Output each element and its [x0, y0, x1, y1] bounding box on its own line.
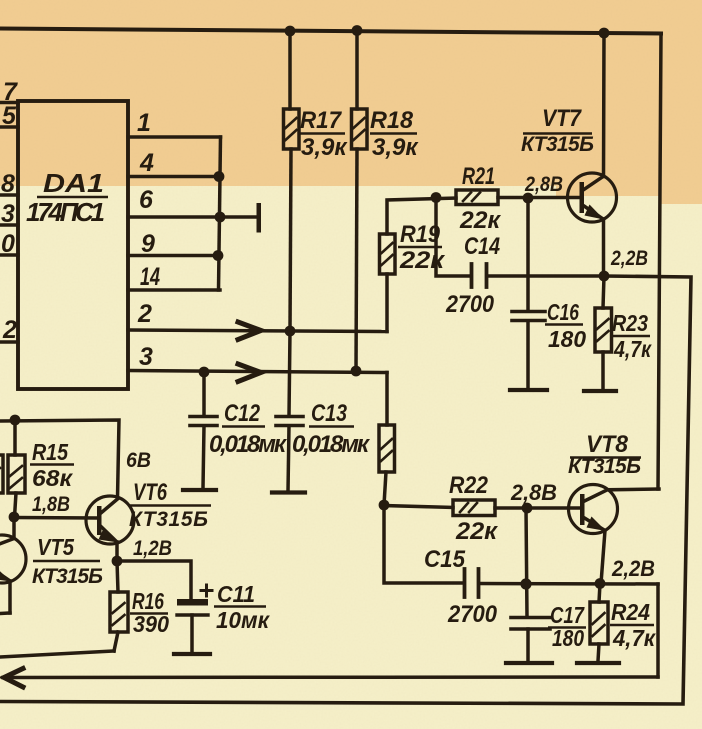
- svg-text:174ПС1: 174ПС1: [26, 197, 105, 227]
- capacitor C17: [526, 508, 527, 617]
- arrow pin 2 row: [238, 322, 261, 340]
- ground C17: [506, 661, 552, 665]
- label R17: [300, 107, 348, 161]
- wire DA1 pin 2 output row: [128, 330, 387, 332]
- svg-text:R17: R17: [300, 107, 343, 134]
- wire R16 bottom to left: [0, 651, 114, 657]
- svg-text:КТ315Б: КТ315Б: [568, 455, 641, 478]
- label C17: [548, 602, 586, 651]
- svg-text:3: 3: [139, 343, 153, 371]
- IC DA1 label: [26, 168, 108, 227]
- svg-text:22к: 22к: [459, 207, 502, 234]
- label R15: [30, 439, 74, 491]
- junction top rail R18: [352, 25, 363, 36]
- svg-text:0: 0: [1, 230, 15, 258]
- label R22: [449, 472, 499, 545]
- wire 1,2В row: [117, 561, 191, 599]
- junction pin3 row C12: [199, 367, 210, 378]
- svg-text:2,8В: 2,8В: [524, 173, 563, 196]
- wire supply rail to VT8 collector vertical: [658, 34, 661, 490]
- svg-text:C13: C13: [311, 400, 348, 427]
- capacitor C16: [526, 198, 530, 310]
- svg-text:1: 1: [137, 109, 151, 137]
- DA1 pin 10 stub: [0, 253, 18, 257]
- ground C11: [174, 652, 210, 656]
- junction pin9 bus: [213, 250, 224, 261]
- svg-text:6В: 6В: [126, 449, 151, 472]
- svg-text:390: 390: [133, 611, 169, 637]
- svg-text:R23: R23: [612, 310, 648, 336]
- label C12: [209, 400, 288, 458]
- svg-text:0,018мк: 0,018мк: [209, 431, 288, 458]
- svg-text:C16: C16: [547, 299, 579, 325]
- junction VT8 base C17: [522, 503, 533, 514]
- svg-text:C11: C11: [217, 581, 255, 607]
- transistor VT5: [0, 517, 26, 614]
- svg-text:VT6: VT6: [133, 479, 168, 506]
- arrow pin 3 row: [238, 364, 261, 382]
- label C16: [545, 299, 586, 352]
- DA1 pin 2 left stub: [0, 340, 18, 344]
- ground terminator pin 6: [257, 203, 262, 233]
- ground C16: [510, 388, 547, 392]
- wire VT7 emitter output to right border, down and along bottom: [0, 276, 691, 704]
- svg-text:2: 2: [137, 300, 152, 328]
- svg-text:2,8В: 2,8В: [510, 480, 557, 505]
- label R24: [610, 599, 656, 651]
- junction C17 emitter row: [520, 578, 531, 589]
- svg-text:2,2В: 2,2В: [610, 247, 648, 270]
- label R19: [398, 221, 446, 274]
- svg-text:VT5: VT5: [37, 534, 75, 560]
- label R16: [130, 588, 169, 637]
- capacitor C14: [436, 198, 471, 277]
- svg-text:180: 180: [552, 625, 584, 651]
- svg-text:2700: 2700: [445, 291, 494, 318]
- DA1 pin 8 stub: [0, 193, 18, 197]
- capacitor C11 electrolytic: [177, 599, 208, 606]
- junction pin4 bus: [214, 171, 225, 182]
- transistor VT6: [86, 496, 134, 561]
- DA1 pin 6 stub: [128, 215, 258, 219]
- svg-text:C14: C14: [464, 233, 500, 260]
- svg-text:2: 2: [2, 316, 17, 344]
- transistor VT7: [568, 33, 617, 276]
- label C13: [292, 400, 371, 458]
- svg-text:1,2В: 1,2В: [133, 537, 172, 560]
- svg-text:КТ315Б: КТ315Б: [129, 508, 208, 531]
- ground R24: [577, 661, 619, 665]
- junction VT7 base C16: [523, 193, 534, 204]
- resistor R23: [603, 276, 604, 308]
- junction top rail R17: [285, 26, 296, 37]
- svg-text:R22: R22: [449, 472, 489, 499]
- junction VT8 emitter node: [595, 578, 606, 589]
- junction VT7 emitter node: [599, 271, 610, 282]
- svg-text:68к: 68к: [32, 465, 73, 491]
- DA1 pin 4 stub: [128, 175, 219, 179]
- junction R20 bottom node: [379, 500, 390, 511]
- wire pin3 row corner down to R20: [385, 373, 389, 426]
- plus sign C11: [201, 585, 212, 596]
- wire node A to R21: [387, 198, 456, 234]
- junction 1,8В node: [9, 512, 20, 523]
- svg-text:R15: R15: [32, 439, 69, 465]
- svg-text:22к: 22к: [399, 247, 446, 274]
- wire pin2 row corner up to R19: [385, 274, 389, 332]
- DA1 pin 3 left stub: [0, 223, 18, 227]
- wire +supply top rail: [0, 29, 661, 34]
- wire pin bus vertical: [219, 137, 221, 290]
- label R21: [459, 163, 502, 234]
- svg-text:C15: C15: [424, 546, 466, 573]
- label C11: [214, 581, 270, 633]
- svg-text:4,7к: 4,7к: [612, 625, 656, 651]
- svg-text:8: 8: [1, 170, 15, 198]
- junction pin2 row R17: [285, 326, 296, 337]
- ground C12: [183, 488, 216, 492]
- label VT6: [129, 479, 211, 531]
- svg-text:22к: 22к: [455, 518, 499, 545]
- resistor R20: [379, 425, 395, 472]
- transistor VT8: [569, 485, 660, 584]
- junction 1,2В node: [112, 556, 123, 567]
- label R23: [611, 310, 652, 362]
- wire R15 top feed: [0, 420, 119, 498]
- DA1 pin 5 stub: [0, 125, 18, 129]
- svg-text:DA1: DA1: [43, 168, 104, 198]
- resistor R22: [384, 506, 453, 508]
- capacitor C13: [289, 331, 290, 416]
- svg-text:2700: 2700: [447, 601, 498, 628]
- resistor R24: [599, 584, 600, 603]
- svg-text:3: 3: [1, 200, 15, 228]
- junction R15 top: [10, 415, 21, 426]
- label VT7: [521, 105, 594, 156]
- svg-text:3,9к: 3,9к: [372, 134, 419, 161]
- ground C13: [272, 490, 305, 494]
- svg-text:4: 4: [139, 149, 154, 177]
- svg-text:VT8: VT8: [586, 431, 629, 458]
- svg-text:R18: R18: [370, 107, 414, 134]
- arrow output left: [4, 669, 23, 688]
- resistor R21: [456, 190, 498, 205]
- svg-text:9: 9: [141, 230, 155, 258]
- label VT5: [32, 534, 103, 588]
- wire 1,8В base row: [14, 516, 97, 520]
- resistor R17: [288, 31, 292, 110]
- svg-text:0,018мк: 0,018мк: [292, 431, 371, 458]
- svg-text:КТ315Б: КТ315Б: [521, 133, 594, 156]
- resistor R19: [380, 234, 396, 274]
- resistor R18: [355, 30, 359, 109]
- junction pin3 row R18: [351, 366, 362, 377]
- svg-text:180: 180: [548, 326, 586, 352]
- wire VT8 emitter output horizontal: [3, 675, 658, 679]
- wire DA1 pin 3 output row: [128, 371, 387, 373]
- svg-text:10мк: 10мк: [216, 607, 270, 633]
- capacitor C15: [384, 505, 464, 583]
- DA1 pin 14 stub: [128, 288, 220, 292]
- svg-text:6: 6: [139, 186, 154, 214]
- DA1 pin 9 stub: [128, 254, 218, 258]
- resistor R15: [13, 420, 17, 455]
- svg-text:4,7к: 4,7к: [613, 336, 652, 362]
- junction node A C14: [431, 192, 442, 203]
- label C14: [445, 233, 500, 318]
- junction pin6 bus: [215, 212, 226, 223]
- label VT8: [568, 431, 641, 478]
- svg-text:5: 5: [2, 102, 17, 130]
- ground R23: [584, 389, 616, 393]
- capacitor C12: [202, 372, 206, 416]
- svg-text:C12: C12: [224, 400, 261, 427]
- DA1 pin 7 stub: [0, 101, 18, 105]
- svg-text:R21: R21: [462, 163, 495, 190]
- label R18: [370, 107, 419, 161]
- svg-text:3,9к: 3,9к: [301, 134, 348, 161]
- svg-text:VT7: VT7: [542, 105, 582, 132]
- junction top rail VT7 collector: [599, 28, 610, 39]
- resistor R14 partial: [0, 455, 3, 493]
- label C15: [424, 546, 498, 628]
- DA1 pin 1 stub: [128, 135, 221, 139]
- IC DA1 box: [18, 101, 128, 389]
- svg-text:R24: R24: [611, 599, 650, 625]
- svg-text:2,2В: 2,2В: [611, 556, 655, 581]
- wire VT8 emitter output line with corner: [656, 584, 660, 677]
- svg-text:14: 14: [140, 263, 160, 291]
- resistor R16: [117, 561, 118, 592]
- svg-text:1,8В: 1,8В: [32, 493, 70, 516]
- svg-text:КТ315Б: КТ315Б: [32, 565, 103, 588]
